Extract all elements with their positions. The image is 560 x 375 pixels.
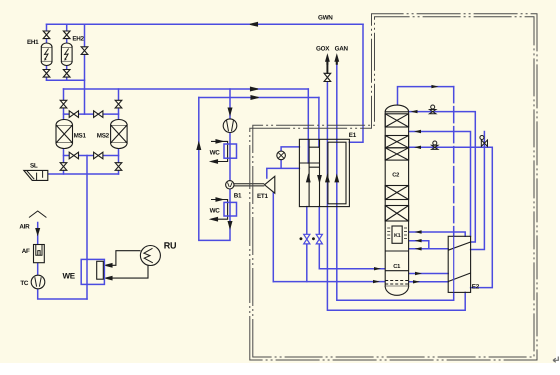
packing section 5: [385, 206, 408, 222]
wire GAN dashed drop: [453, 87, 455, 237]
wire RU supply (black): [107, 251, 140, 266]
valve EH bypass: [81, 47, 88, 55]
refrigeration unit RU: [140, 246, 160, 266]
adsorber MS2: [111, 120, 128, 149]
subcooler E2: [448, 236, 470, 292]
cooler WC1 bracket: [211, 141, 228, 161]
arrow into WE coil bottom: [105, 276, 112, 279]
wire C1 to E2 line b: [409, 281, 449, 283]
wire E1 booster outlet: [319, 207, 385, 269]
wire booster air header: [199, 97, 319, 99]
C1 sump line: [385, 250, 408, 252]
arrow up in E1 air passage: [307, 176, 310, 182]
arrow GOX product: [326, 55, 329, 73]
wire booster tap down to compressor: [229, 89, 231, 119]
handwheel dot on booster outlet valve: [312, 237, 317, 240]
booster B1: [226, 181, 234, 189]
control valve on dome reflux: [430, 105, 436, 114]
wire filter to ET1 feed: [267, 160, 300, 178]
turbine ET1: [265, 176, 275, 193]
arrow into WE coil top: [105, 264, 112, 267]
svg-text:C2: C2: [392, 172, 399, 179]
arrow right C1 to E2 line b: [413, 280, 420, 283]
svg-text:AIR: AIR: [19, 224, 30, 231]
svg-text:E2: E2: [472, 284, 480, 291]
arrow right C1 to E2 line a: [415, 272, 422, 275]
cooler WC1 blue box: [224, 144, 237, 158]
wire GWN header: [47, 23, 364, 25]
arrow left into C2 upper: [414, 130, 421, 133]
control valve on expansion branch: [480, 136, 488, 147]
control valve on C2 feed lower: [432, 141, 438, 149]
wire compressor to WC1 to B1: [229, 133, 231, 182]
WE refrigerant coil box: [97, 261, 104, 279]
svg-text:ET1: ET1: [257, 193, 268, 200]
valve below MS2: [115, 163, 122, 171]
arrow WC1 water out: [211, 160, 218, 163]
arrow GWN flow left: [250, 23, 258, 27]
arrow WC2 water out: [211, 218, 218, 221]
wire K1 overhead to E2: [409, 232, 466, 236]
svg-text:B1: B1: [234, 193, 242, 200]
wire expansion branch with valve: [471, 132, 485, 250]
svg-text:MS1: MS1: [74, 133, 87, 140]
cooler WC2 blue box: [224, 202, 237, 216]
air intake caret: [29, 211, 46, 218]
wire EH2 riser: [66, 24, 68, 80]
wire GAN stack: [336, 62, 338, 207]
svg-text:AF: AF: [22, 248, 30, 255]
valve above EH2: [63, 31, 70, 39]
arrow WC1 water in: [216, 140, 223, 143]
wire GAN inside E2: [453, 236, 455, 292]
silencer SL: [24, 170, 48, 180]
wire rich liquid to column: [273, 281, 385, 283]
valve on GOX stack: [324, 73, 331, 81]
wire column dome to E2 top: [398, 87, 454, 106]
filter on ET1 feed: [277, 151, 286, 160]
valve top crossover left: [69, 111, 78, 118]
wire E2 to column upper return: [409, 241, 429, 249]
wire EH bypass: [84, 24, 86, 114]
svg-text:MS2: MS2: [97, 133, 110, 140]
return mark: [553, 357, 558, 363]
arrow left into dome: [411, 110, 418, 113]
svg-text:EH2: EH2: [72, 35, 84, 42]
wire GAN from E2 up through E1: [337, 207, 454, 301]
arrow down into compressor: [228, 108, 232, 115]
arrow up in E1 GAN passage: [335, 176, 338, 182]
arrow right into C1 lower: [373, 280, 380, 283]
svg-text:GWN: GWN: [318, 15, 333, 22]
valve above MS1: [60, 100, 67, 108]
valve bottom crossover right: [94, 152, 103, 159]
wire AIR inlet arrow line: [37, 223, 39, 233]
wire C2 feed lower: [409, 147, 493, 287]
wire MS1 top riser: [63, 89, 65, 125]
cold box boundary inner: [253, 17, 534, 357]
svg-text:E1: E1: [349, 132, 357, 139]
arrow GAN product: [335, 55, 338, 64]
svg-text:C1: C1: [393, 263, 401, 270]
shaft B1 to ET1: [234, 184, 264, 186]
arrow down below WC2: [228, 222, 232, 229]
svg-text:TC: TC: [20, 280, 29, 287]
wire reflux to dome: [410, 112, 476, 242]
valve top crossover right: [94, 111, 103, 118]
valve above MS2: [115, 100, 122, 108]
wire E1 tap to filter: [281, 147, 299, 151]
wire TC discharge: [38, 289, 87, 299]
condenser K1: [387, 226, 407, 243]
heat exchanger E1 block: [299, 139, 349, 206]
wire MS top header: [64, 88, 309, 90]
wire E1 air outlet to column: [306, 207, 308, 282]
valve on E1 booster outlet: [316, 234, 322, 244]
wire E2 to column lower return: [409, 248, 449, 250]
compressor TC: [31, 275, 45, 289]
packing section 1: [385, 114, 408, 127]
arrow left on E2 upper return: [415, 239, 422, 242]
liquid level dashes: [385, 281, 408, 285]
cold box boundary outer: [250, 14, 537, 360]
wire TC suction line: [37, 228, 39, 275]
packing section 4: [385, 186, 408, 200]
AIR arrowhead: [36, 229, 40, 235]
arrow right on dome overhead: [431, 85, 438, 88]
svg-text:GAN: GAN: [335, 46, 349, 53]
arrow left on E2 lower return: [415, 247, 422, 250]
wire C1 to E2 line a: [409, 273, 449, 275]
valve on E1 air outlet: [304, 234, 310, 244]
column C2 shell: [385, 105, 408, 295]
svg-text:RU: RU: [164, 241, 176, 251]
arrow WC2 water in: [216, 198, 223, 201]
handwheel dot on air outlet valve: [299, 237, 304, 240]
arrow up on booster return: [197, 143, 201, 150]
wire EH1 riser: [46, 24, 48, 80]
arrow booster header right: [251, 96, 259, 100]
heat exchanger WE (blue box): [81, 259, 104, 284]
wire MS bottom crossover: [64, 155, 119, 157]
wire EH bottom header: [47, 79, 85, 81]
packing section 3: [385, 148, 408, 160]
adsorber MS1: [56, 120, 73, 149]
svg-text:WC: WC: [210, 150, 221, 157]
svg-text:K1: K1: [394, 233, 401, 239]
svg-text:WC: WC: [210, 207, 221, 214]
wire ET1 outlet: [272, 192, 274, 282]
arrow down in E1 booster passage: [318, 176, 321, 182]
wire MS2 top riser: [118, 89, 120, 125]
compressor circle on booster line: [223, 119, 237, 133]
svg-text:GOX: GOX: [316, 46, 330, 53]
wire B1 to WC2 and return loop: [199, 98, 230, 241]
wire booster air into E1: [318, 98, 320, 148]
wire GOX stack: [326, 82, 328, 207]
filter AF: [34, 245, 45, 263]
packing section 2: [385, 136, 408, 148]
wire RU return (black): [107, 265, 148, 278]
arrow up in E1 GOX passage: [326, 176, 329, 182]
cooler WC2 bracket: [211, 200, 228, 220]
C1 lower line: [385, 270, 408, 272]
svg-text:WE: WE: [63, 272, 76, 281]
wire GOX from E2 up through E1: [327, 207, 465, 311]
wire regeneration vent header: [47, 173, 118, 175]
heater EH1: [41, 43, 52, 66]
valve bottom crossover left: [69, 152, 78, 159]
svg-text:EH1: EH1: [27, 39, 39, 46]
valve below EH2: [63, 70, 70, 78]
wire GWN riser from E1: [349, 24, 363, 142]
svg-text:SL: SL: [30, 163, 38, 170]
arrow air header right: [251, 87, 259, 91]
wire C2 feed upper: [409, 132, 471, 237]
heater EH2: [61, 43, 72, 65]
wire MS1 bottom riser: [63, 143, 65, 174]
arrow right into C1 upper: [374, 267, 381, 270]
valve below EH1: [43, 70, 50, 78]
valve below MS1: [60, 163, 67, 171]
wire MS2 bottom riser: [118, 143, 120, 174]
arrow left into C2 lower: [414, 146, 421, 149]
wire main air riser through WE: [86, 156, 88, 300]
valve above EH1: [43, 31, 50, 39]
wire MS top crossover: [64, 113, 119, 115]
arrow left into K1: [415, 230, 422, 233]
wire main air into E1: [307, 89, 309, 163]
